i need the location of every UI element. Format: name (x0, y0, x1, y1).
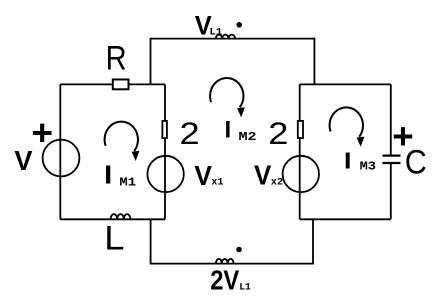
svg-text:2: 2 (180, 116, 200, 151)
svg-text:+: + (31, 113, 53, 153)
svg-text:I: I (104, 161, 112, 190)
svg-text:V: V (194, 159, 212, 191)
svg-text:M1: M1 (119, 175, 136, 189)
svg-text:2: 2 (268, 116, 288, 151)
svg-text:x2: x2 (271, 176, 283, 188)
svg-text:2V: 2V (210, 266, 239, 296)
svg-text:L1: L1 (239, 282, 251, 293)
svg-text:x1: x1 (211, 177, 223, 188)
svg-text:L1: L1 (209, 27, 222, 39)
svg-text:M3: M3 (360, 159, 377, 173)
svg-text:I: I (225, 117, 232, 144)
svg-text:+: + (392, 116, 413, 157)
svg-text:I: I (344, 148, 352, 173)
svg-text:R: R (106, 38, 127, 77)
svg-text:M2: M2 (239, 131, 257, 144)
svg-text:V: V (254, 160, 271, 191)
svg-text:L: L (104, 218, 124, 257)
